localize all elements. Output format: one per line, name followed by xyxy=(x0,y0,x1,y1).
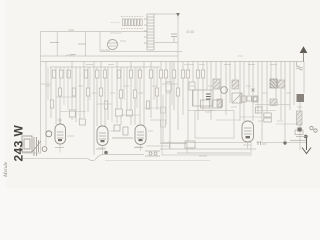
wire left border vertical x41 xyxy=(40,32,42,154)
wire top section line y31 xyxy=(41,31,148,33)
resistor row top R-bank xyxy=(122,19,142,26)
detector box xyxy=(193,90,214,106)
resistor row 2 mid xyxy=(58,82,195,98)
svg-text:30-60: 30-60 xyxy=(186,30,194,34)
junction blob above ground xyxy=(304,135,308,139)
label row above R-bank xyxy=(110,17,143,34)
vertical wire field left half xyxy=(51,62,178,156)
bottom wiring middle xyxy=(160,141,256,153)
IF coil block 3 xyxy=(217,99,223,107)
tube V1 oscillator circle xyxy=(108,40,118,50)
dark dot under V3 xyxy=(104,151,108,155)
tube pin drops xyxy=(60,142,248,155)
wire short links left xyxy=(41,84,178,120)
label right of V1 xyxy=(120,40,126,42)
wire link y42.5 xyxy=(154,42,178,44)
tube electrode dots xyxy=(58,136,250,142)
resistor row 3 lower xyxy=(50,100,149,125)
wire output stage loop xyxy=(161,95,235,142)
capacitor C-pad top xyxy=(171,34,177,43)
bottom wiring right link xyxy=(256,142,307,144)
antenna symbol xyxy=(301,47,307,61)
output trafo light block xyxy=(278,80,285,88)
svg-text:243 W: 243 W xyxy=(12,125,26,162)
terminal circles right edge xyxy=(310,126,317,132)
tube V5 xyxy=(242,121,254,142)
tube V3 xyxy=(97,126,108,146)
dark marks in detector box xyxy=(206,94,211,99)
output trafo dark block xyxy=(270,79,277,88)
wire vertical x46 xyxy=(45,62,47,147)
small tube circle mid right xyxy=(221,87,228,94)
wire short links right xyxy=(188,104,290,120)
IF coil block 1 xyxy=(213,79,220,89)
wire bottom frame xyxy=(105,143,251,161)
box with diagonal mid right xyxy=(232,93,242,103)
labels above bus right tiny xyxy=(184,56,243,65)
vertical coil right edge xyxy=(297,111,303,125)
wire vertical x100 top box xyxy=(99,31,101,52)
small boxes right lower xyxy=(241,96,271,122)
tube V2 xyxy=(55,118,66,144)
svg-text:0,5: 0,5 xyxy=(262,142,267,146)
wire sub-bus y67 xyxy=(50,66,160,68)
wire top bus y56 xyxy=(41,55,179,57)
vertical wire field right half xyxy=(183,62,304,151)
wire extra verticals fill xyxy=(48,62,172,123)
lower boxes mid right xyxy=(201,100,222,108)
IF coil block 2 xyxy=(232,80,239,89)
wire top section line y51.5 xyxy=(100,51,182,53)
arrow marker top x178 xyxy=(176,13,180,17)
paper background xyxy=(0,0,320,188)
dial lamp circle xyxy=(42,131,52,152)
svg-text:Lw Kw: Lw Kw xyxy=(101,48,111,52)
ground arrow bottom right xyxy=(302,136,311,154)
svg-text:Mende: Mende xyxy=(3,161,9,178)
coil bottom dark mark xyxy=(298,128,302,132)
cap pair small bottom xyxy=(258,141,261,145)
wire vertical x178 top xyxy=(177,13,179,62)
wire main bus y61.5 xyxy=(41,61,304,63)
transformer box bottom middle xyxy=(185,141,195,148)
wire comb top link y14 xyxy=(154,13,178,15)
choke block lower xyxy=(270,99,277,106)
wire link y124 right xyxy=(276,123,298,125)
resistor row 1 xyxy=(52,70,204,78)
label texts top rect xyxy=(50,30,86,55)
junction dot bottom right xyxy=(283,141,286,144)
bottom wiring left xyxy=(22,153,144,161)
tiny label specks xyxy=(46,55,302,156)
coil ladder wave-switch xyxy=(144,14,154,50)
wire top divider x57 xyxy=(56,32,58,57)
small box above ground xyxy=(290,130,306,140)
dark cap blob antenna line xyxy=(297,94,305,102)
tube V4 xyxy=(135,125,146,145)
x mark right xyxy=(252,89,255,92)
wave symbol under bus right xyxy=(297,62,303,71)
small comps right of box xyxy=(247,96,258,101)
speaker transformer bottom left xyxy=(22,136,41,156)
switch cluster bottom xyxy=(145,151,160,156)
cluster between V3 V4 xyxy=(112,125,133,138)
tube labels below xyxy=(55,148,143,150)
wire top divider x85.6 xyxy=(85,32,87,57)
